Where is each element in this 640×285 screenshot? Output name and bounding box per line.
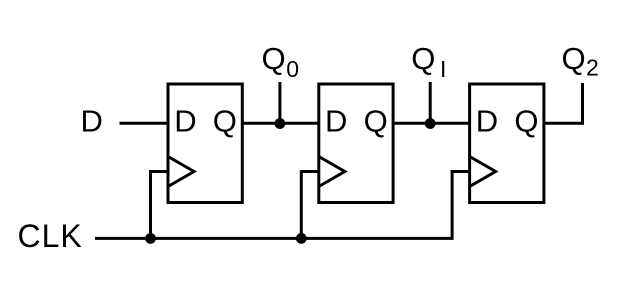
svg-text:I: I xyxy=(440,56,446,82)
svg-text:Q: Q xyxy=(262,41,286,76)
node Q1 junction xyxy=(425,118,436,129)
node Q0 junction xyxy=(275,118,286,129)
flip-flop U3 body xyxy=(470,84,544,203)
wire U3.Q output to Q2 xyxy=(544,83,583,123)
wire D input xyxy=(120,122,169,125)
svg-text:D: D xyxy=(476,104,498,139)
svg-text:D: D xyxy=(81,104,103,139)
wire CLK bus and U3 clock branch xyxy=(95,172,470,239)
svg-text:2: 2 xyxy=(586,54,599,80)
wire U1 clock branch xyxy=(151,172,169,239)
svg-text:D: D xyxy=(325,104,347,139)
svg-text:CLK: CLK xyxy=(18,218,83,254)
svg-text:Q: Q xyxy=(213,104,237,139)
svg-text:D: D xyxy=(174,104,196,139)
wire U1.Q to U2.D xyxy=(242,122,318,125)
wire U2.Q to U3.D xyxy=(393,122,470,125)
svg-text:Q: Q xyxy=(411,41,435,76)
flip-flop U1 body xyxy=(168,84,242,203)
node junction CLK-U2 xyxy=(296,233,307,244)
svg-text:Q: Q xyxy=(562,41,586,76)
flip-flop U1 clock triangle xyxy=(168,157,194,187)
wire U2 clock branch xyxy=(301,172,319,239)
svg-text:0: 0 xyxy=(286,56,299,82)
flip-flop U3 clock triangle xyxy=(470,157,496,187)
flip-flop U2 clock triangle xyxy=(319,157,345,187)
wire Q1 stub xyxy=(429,82,432,123)
svg-text:Q: Q xyxy=(514,104,538,139)
wire Q0 stub xyxy=(278,82,281,123)
svg-text:Q: Q xyxy=(364,104,388,139)
node junction CLK-U1 xyxy=(145,233,156,244)
flip-flop U2 body xyxy=(319,84,393,203)
